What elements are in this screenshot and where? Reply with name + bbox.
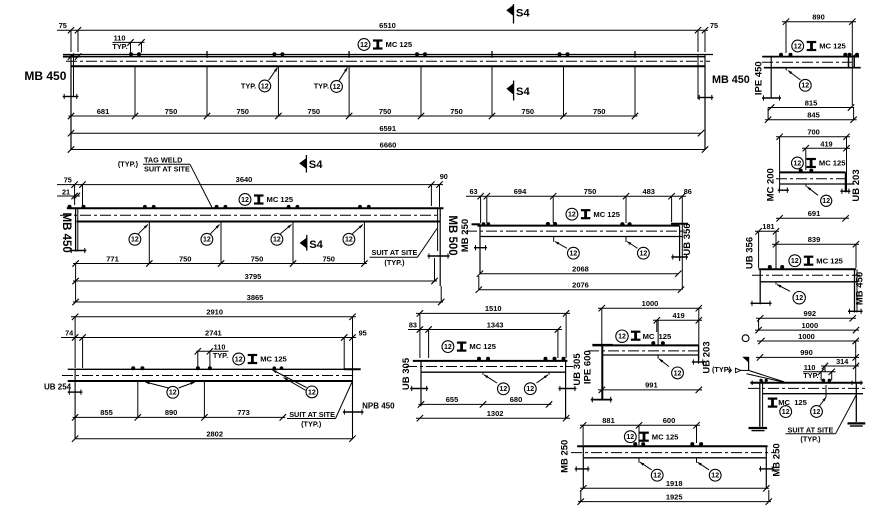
svg-text:S4: S4 bbox=[309, 159, 323, 171]
d10 centerline bbox=[748, 387, 866, 389]
svg-text:MB 250: MB 250 bbox=[560, 440, 571, 473]
svg-text:IPE 600: IPE 600 bbox=[583, 350, 594, 384]
d3 left bolts bbox=[68, 205, 72, 209]
svg-text:MB 450: MB 450 bbox=[24, 69, 66, 83]
svg-text:12: 12 bbox=[308, 389, 316, 396]
d8 dim 1510 bbox=[416, 312, 570, 314]
d1 left flange mark bbox=[63, 96, 79, 98]
svg-text:1343: 1343 bbox=[487, 320, 504, 329]
svg-text:600: 600 bbox=[663, 416, 676, 425]
d10 right post bbox=[855, 383, 857, 422]
d3 section marker S4 mid bbox=[300, 238, 307, 249]
d9 dim 991 bbox=[598, 389, 702, 391]
d1 right end plate bbox=[697, 55, 699, 100]
d11 dim 1918 bbox=[580, 487, 769, 489]
d6 bolts bbox=[768, 265, 772, 269]
d7 dim 2910 bbox=[71, 316, 356, 318]
svg-text:1000: 1000 bbox=[798, 332, 815, 341]
d5 beam bottom line bbox=[780, 183, 854, 185]
d5 dim 419 bbox=[802, 147, 850, 149]
d8 stiffeners and balloons bbox=[482, 372, 484, 375]
svg-text:419: 419 bbox=[820, 140, 832, 149]
d7 dim 2802 bbox=[75, 438, 352, 440]
d2 dim 845 bbox=[765, 119, 857, 121]
d1 centerline bbox=[66, 60, 710, 62]
d3 callout MC 125 bbox=[239, 194, 251, 206]
d8 bolts bbox=[477, 357, 481, 361]
d9 dim 1000 bbox=[598, 307, 702, 309]
d1 beam top flange thick bbox=[71, 65, 705, 67]
svg-text:750: 750 bbox=[251, 254, 264, 263]
d2 callout MC 125 bbox=[792, 40, 804, 52]
svg-text:TYP.: TYP. bbox=[213, 351, 228, 360]
d3 left flange mark bbox=[70, 250, 87, 252]
svg-text:2068: 2068 bbox=[572, 265, 589, 274]
d8 right flange mark bbox=[558, 388, 576, 390]
d8 beam bottom line bbox=[421, 371, 566, 373]
d10 dim 314 bbox=[821, 365, 859, 367]
svg-text:12: 12 bbox=[653, 473, 661, 480]
svg-text:UB 305: UB 305 bbox=[572, 353, 583, 386]
svg-text:MC 125: MC 125 bbox=[267, 195, 294, 204]
svg-text:63: 63 bbox=[469, 187, 477, 196]
d3 section marker S4 top bbox=[299, 158, 306, 169]
svg-text:3640: 3640 bbox=[236, 175, 253, 184]
d5 dim 691 bbox=[776, 217, 849, 219]
svg-text:MC 125: MC 125 bbox=[469, 342, 496, 351]
d7 beam bottom flange thick bbox=[68, 380, 353, 382]
d4 dim 2076 bbox=[479, 289, 681, 291]
d6 dim 181 bbox=[755, 230, 779, 232]
d8 left end plate bbox=[420, 361, 422, 406]
d8 left flange mark bbox=[410, 388, 428, 390]
svg-text:TYP.: TYP. bbox=[112, 42, 127, 51]
svg-text:75: 75 bbox=[710, 21, 718, 30]
d3 bolt pairs bbox=[143, 205, 147, 209]
svg-text:(TYP.): (TYP.) bbox=[384, 258, 405, 267]
svg-text:1302: 1302 bbox=[487, 409, 504, 418]
d7 balloon left with two leaders bbox=[145, 382, 168, 388]
d5 beam top flange thick bbox=[780, 171, 846, 173]
svg-text:839: 839 bbox=[808, 235, 821, 244]
d11 centerline bbox=[571, 452, 773, 454]
d8 dims 83 1343 bbox=[408, 329, 562, 331]
d4 right end plate bbox=[679, 226, 681, 261]
d9 left column IPE600 bbox=[601, 345, 603, 400]
svg-text:TYP.: TYP. bbox=[314, 81, 329, 90]
d5 centerline bbox=[776, 178, 849, 180]
d6 centerline bbox=[752, 274, 860, 276]
d1 stiffener extension lines bbox=[134, 66, 136, 116]
d2 dim 890 bbox=[782, 21, 856, 23]
svg-text:2910: 2910 bbox=[206, 308, 223, 317]
svg-text:IPE 450: IPE 450 bbox=[753, 61, 764, 95]
d1 channel callout MC 125 bbox=[358, 39, 370, 51]
svg-text:181: 181 bbox=[762, 222, 774, 231]
d7 left end plate bbox=[74, 369, 76, 438]
svg-text:890: 890 bbox=[165, 408, 178, 417]
d9 right flange mark bbox=[692, 361, 704, 363]
d7 segment dims 855 890 773 bbox=[73, 416, 286, 418]
d11 beam bottom line bbox=[584, 457, 766, 459]
d9 beam top flange thick bbox=[592, 344, 698, 346]
svg-text:12: 12 bbox=[345, 237, 353, 244]
svg-text:750: 750 bbox=[593, 107, 606, 116]
d4 dim 2068 bbox=[480, 273, 678, 275]
svg-text:12: 12 bbox=[791, 258, 799, 265]
svg-text:125: 125 bbox=[794, 398, 807, 407]
svg-text:12: 12 bbox=[782, 409, 790, 416]
svg-text:750: 750 bbox=[584, 187, 597, 196]
d11 stiffeners and balloons bbox=[638, 458, 640, 463]
svg-text:750: 750 bbox=[322, 254, 335, 263]
d10 beam bottom line bbox=[762, 393, 863, 395]
d7 centerline bbox=[62, 375, 356, 377]
svg-text:12: 12 bbox=[444, 344, 452, 351]
d10 callout MC 125 below bbox=[768, 398, 778, 400]
svg-text:419: 419 bbox=[673, 311, 685, 320]
d5 left flange mark bbox=[778, 189, 789, 191]
d4 centerline bbox=[466, 230, 685, 232]
d3 top dim 75 3640 90 bbox=[57, 184, 443, 186]
svg-text:2076: 2076 bbox=[572, 281, 589, 290]
d4 callout MC 125 bbox=[566, 208, 578, 220]
svg-text:12: 12 bbox=[273, 237, 281, 244]
d9 beam bottom line bbox=[602, 354, 699, 356]
d8 right end plate bbox=[565, 361, 567, 418]
svg-text:12: 12 bbox=[794, 43, 802, 50]
svg-text:2741: 2741 bbox=[205, 328, 222, 337]
svg-text:MC 125: MC 125 bbox=[819, 159, 846, 168]
weld circle symbol bbox=[742, 335, 749, 342]
svg-text:SUIT AT SITE: SUIT AT SITE bbox=[788, 425, 834, 434]
d6 dim 992 bbox=[756, 317, 856, 319]
d8 beam top flange thick bbox=[413, 360, 568, 362]
svg-text:773: 773 bbox=[237, 408, 250, 417]
svg-text:750: 750 bbox=[179, 254, 192, 263]
svg-text:MC 125: MC 125 bbox=[816, 256, 843, 265]
svg-text:655: 655 bbox=[446, 395, 459, 404]
svg-text:MB 450: MB 450 bbox=[60, 213, 72, 253]
d4 left flange mark bbox=[474, 247, 487, 249]
d10 dim 990 bbox=[756, 356, 859, 358]
d9 bolts bbox=[651, 341, 655, 345]
d10 dim 1000 bbox=[757, 340, 859, 342]
svg-text:750: 750 bbox=[379, 107, 392, 116]
svg-text:750: 750 bbox=[308, 107, 321, 116]
d9 dim 419 bbox=[653, 319, 702, 321]
d1 left end cap bbox=[63, 56, 79, 58]
svg-text:TYP.: TYP. bbox=[241, 82, 256, 91]
d6 callout MC 125 bbox=[789, 255, 801, 267]
d9 callout MC 125 bbox=[616, 330, 628, 342]
svg-text:»: » bbox=[728, 365, 733, 375]
svg-text:(TYP.): (TYP.) bbox=[800, 435, 821, 444]
d3 stiffeners bbox=[148, 222, 150, 264]
svg-text:3865: 3865 bbox=[247, 293, 264, 302]
svg-text:MB 500: MB 500 bbox=[446, 215, 458, 255]
svg-text:815: 815 bbox=[805, 98, 818, 107]
d4 left support flange bbox=[472, 223, 481, 225]
d1 section marker S4 mid bbox=[506, 83, 513, 95]
d6 beam top flange thick bbox=[759, 268, 856, 270]
svg-text:MB 250: MB 250 bbox=[460, 219, 471, 252]
svg-text:MB 450: MB 450 bbox=[854, 272, 865, 305]
svg-text:12: 12 bbox=[674, 370, 682, 377]
d3 right flange mark bbox=[428, 255, 450, 257]
svg-text:1000: 1000 bbox=[642, 299, 659, 308]
svg-text:12: 12 bbox=[618, 334, 626, 341]
d6 dim 1000 bbox=[755, 329, 859, 331]
svg-text:845: 845 bbox=[807, 111, 820, 120]
d5 stiffener and balloon bbox=[805, 184, 807, 187]
d6 left end plate bbox=[759, 269, 761, 304]
svg-text:12: 12 bbox=[626, 434, 634, 441]
d3 dim 3865 bbox=[73, 301, 443, 303]
svg-text:(TYP.): (TYP.) bbox=[301, 420, 322, 429]
d10 left post bbox=[759, 383, 761, 427]
d4 right flange mark bbox=[671, 256, 688, 258]
d10 stiffener bbox=[825, 385, 827, 397]
svg-text:750: 750 bbox=[522, 107, 535, 116]
svg-text:95: 95 bbox=[359, 328, 367, 337]
svg-text:S4: S4 bbox=[516, 8, 530, 20]
svg-text:83: 83 bbox=[409, 320, 417, 329]
d7 dims 74 2741 95 bbox=[61, 337, 356, 339]
d8 dim 1302 bbox=[416, 417, 570, 419]
svg-text:MC: MC bbox=[643, 332, 655, 341]
svg-text:750: 750 bbox=[165, 107, 178, 116]
d9 stiffener and balloon bbox=[657, 320, 659, 345]
d4 left end plate bbox=[479, 226, 481, 274]
d5 callout MC 125 bbox=[792, 157, 804, 169]
svg-text:12: 12 bbox=[795, 295, 803, 302]
svg-text:UB 305: UB 305 bbox=[401, 357, 412, 390]
svg-text:1510: 1510 bbox=[485, 304, 502, 313]
d7 bolts bbox=[131, 366, 135, 370]
d1 section marker S4 top bbox=[506, 5, 513, 16]
svg-text:12: 12 bbox=[822, 198, 830, 205]
svg-text:NPB 450: NPB 450 bbox=[362, 402, 395, 411]
d4 right support flange bbox=[671, 223, 688, 225]
d3 left end plates bbox=[75, 208, 77, 252]
svg-text:21: 21 bbox=[62, 187, 70, 196]
svg-text:UB 356: UB 356 bbox=[682, 223, 693, 255]
d7 right top flange bbox=[344, 368, 361, 370]
svg-text:S4: S4 bbox=[516, 86, 530, 98]
svg-text:3795: 3795 bbox=[245, 272, 262, 281]
d2 stiffener and balloon 12 bbox=[785, 68, 787, 71]
d2 dim 815 bbox=[768, 107, 854, 109]
d3 centerline bbox=[60, 214, 441, 216]
d4 bolts bbox=[546, 222, 550, 226]
d3 dim 3795 bbox=[73, 280, 437, 282]
d6 beam bottom line bbox=[760, 281, 858, 283]
d6 stiffener and balloon bbox=[775, 244, 777, 269]
d7 left flange mark bbox=[68, 391, 83, 393]
svg-text:MC 125: MC 125 bbox=[593, 210, 620, 219]
svg-text:SUIT AT SITE: SUIT AT SITE bbox=[144, 164, 190, 173]
svg-text:750: 750 bbox=[450, 107, 463, 116]
svg-text:483: 483 bbox=[642, 187, 655, 196]
d1 top flange line bbox=[63, 54, 713, 56]
svg-text:12: 12 bbox=[169, 390, 177, 397]
d7 right flange mark bbox=[343, 411, 364, 413]
svg-text:12: 12 bbox=[131, 237, 139, 244]
d2 beam bottom line bbox=[764, 67, 861, 69]
svg-text:MC 125: MC 125 bbox=[260, 355, 287, 364]
svg-text:890: 890 bbox=[812, 13, 825, 22]
svg-text:12: 12 bbox=[333, 84, 341, 91]
svg-text:881: 881 bbox=[602, 416, 615, 425]
svg-text:12: 12 bbox=[360, 42, 368, 49]
svg-text:75: 75 bbox=[64, 175, 72, 184]
svg-text:2802: 2802 bbox=[206, 430, 223, 439]
d11 left end plate bbox=[582, 446, 584, 488]
d10 bolts bbox=[822, 379, 826, 383]
d2 beam top flange bbox=[762, 56, 859, 58]
svg-text:750: 750 bbox=[236, 107, 249, 116]
d7 callout MC 125 bbox=[233, 353, 245, 365]
d4 beam top flange thick bbox=[477, 225, 679, 227]
d5 right end plate bbox=[844, 172, 846, 192]
svg-text:12: 12 bbox=[261, 83, 269, 90]
d4 beam bottom line bbox=[480, 236, 682, 238]
svg-text:990: 990 bbox=[800, 348, 813, 357]
svg-text:771: 771 bbox=[106, 254, 119, 263]
d2 right end plates bbox=[848, 55, 850, 69]
d1 top dimension 75 6510 75 bbox=[57, 29, 708, 31]
d11 beam top flange thick bbox=[577, 445, 768, 447]
svg-text:SUIT AT SITE: SUIT AT SITE bbox=[289, 410, 335, 419]
d6 left flange mark bbox=[751, 302, 772, 304]
d8 segment dims 655 680 bbox=[419, 403, 552, 405]
svg-text:MB 450: MB 450 bbox=[712, 74, 750, 86]
svg-text:1918: 1918 bbox=[666, 479, 683, 488]
d3 beam bottom flange thick bbox=[77, 221, 440, 223]
d7 balloon right with two leaders bbox=[273, 370, 307, 388]
d1 right flange mark bbox=[698, 97, 714, 99]
svg-text:S4: S4 bbox=[309, 239, 323, 251]
svg-text:90: 90 bbox=[440, 172, 448, 181]
d9 centerline bbox=[588, 350, 701, 352]
d1 dimension 6660 bbox=[71, 149, 705, 151]
svg-text:6591: 6591 bbox=[379, 124, 396, 133]
d7 stiffeners bbox=[137, 381, 139, 417]
d6 dim 839 bbox=[772, 243, 859, 245]
svg-text:694: 694 bbox=[514, 187, 527, 196]
svg-text:12: 12 bbox=[813, 409, 821, 416]
d7 right end bbox=[352, 369, 354, 436]
d2 bolts bbox=[779, 53, 783, 57]
svg-text:12: 12 bbox=[241, 197, 249, 204]
svg-text:12: 12 bbox=[711, 473, 719, 480]
svg-text:12: 12 bbox=[526, 386, 534, 393]
d5 dim 700 bbox=[776, 136, 850, 138]
d5 bolts bbox=[799, 169, 803, 173]
d1 bolt pairs bbox=[129, 52, 133, 56]
svg-text:MB 250: MB 250 bbox=[771, 443, 782, 476]
d4 weld bolts right bbox=[620, 222, 624, 226]
svg-text:700: 700 bbox=[807, 128, 820, 137]
svg-text:125: 125 bbox=[659, 332, 672, 341]
svg-text:1000: 1000 bbox=[801, 321, 818, 330]
d8 callout MC 125 bbox=[442, 341, 454, 353]
svg-text:12: 12 bbox=[568, 212, 576, 219]
svg-text:MC 125: MC 125 bbox=[652, 432, 679, 441]
d10 balloons 12 bbox=[780, 406, 792, 418]
svg-text:691: 691 bbox=[808, 209, 821, 218]
svg-text:75: 75 bbox=[59, 21, 67, 30]
svg-text:MC 200: MC 200 bbox=[765, 168, 776, 201]
svg-text:6660: 6660 bbox=[380, 140, 397, 149]
svg-text:UB 254: UB 254 bbox=[44, 382, 72, 391]
svg-text:MC 125: MC 125 bbox=[819, 42, 846, 51]
d11 bolts bbox=[633, 442, 637, 446]
d11 dims 881 600 bbox=[580, 424, 700, 426]
d1 dimension 6591 bbox=[71, 132, 701, 134]
d10 beam top flange bbox=[750, 382, 862, 384]
svg-text:12: 12 bbox=[203, 237, 211, 244]
d3 balloons 12 bbox=[138, 225, 147, 234]
d3 dim 21 bbox=[57, 195, 80, 197]
d3 right end plates bbox=[437, 208, 439, 251]
d11 dim 1925 bbox=[578, 501, 771, 503]
svg-text:1925: 1925 bbox=[666, 492, 683, 501]
svg-text:TYP.: TYP. bbox=[803, 371, 818, 380]
d1 segment dimensions 681 750x7 bbox=[69, 115, 638, 117]
svg-text:SUIT AT SITE: SUIT AT SITE bbox=[372, 248, 418, 257]
svg-text:12: 12 bbox=[235, 356, 243, 363]
svg-text:6510: 6510 bbox=[379, 21, 396, 30]
svg-text:TAG WELD: TAG WELD bbox=[144, 155, 182, 164]
svg-text:12: 12 bbox=[570, 251, 578, 258]
d7 beam top line bbox=[68, 368, 353, 370]
d1 weld ticks on top flange bbox=[206, 51, 208, 58]
d6 right end plates bbox=[854, 269, 856, 312]
svg-text:681: 681 bbox=[97, 107, 110, 116]
d4 top dims 63 694 750 483 86 bbox=[466, 195, 686, 197]
svg-text:12: 12 bbox=[500, 386, 508, 393]
svg-text:992: 992 bbox=[804, 309, 817, 318]
d4 stiffeners and balloons bbox=[553, 237, 555, 243]
d2 centerline bbox=[762, 61, 852, 63]
svg-text:991: 991 bbox=[645, 381, 658, 390]
d6 right flange mark bbox=[848, 310, 863, 312]
svg-text:UB 203: UB 203 bbox=[702, 341, 713, 373]
d8 centerline bbox=[406, 366, 573, 368]
d11 right end plate bbox=[765, 446, 767, 488]
d1 channel bottom line bbox=[71, 56, 705, 58]
svg-text:86: 86 bbox=[684, 187, 692, 196]
d1 left end plate bbox=[70, 55, 72, 150]
svg-text:UB 203: UB 203 bbox=[851, 169, 862, 201]
svg-text:314: 314 bbox=[836, 357, 849, 366]
d9 right end plate bbox=[698, 345, 700, 363]
d11 right flange mark bbox=[759, 468, 774, 470]
svg-text:74: 74 bbox=[65, 328, 74, 337]
d3 beam top flange thick bbox=[67, 207, 444, 209]
svg-text:680: 680 bbox=[510, 395, 523, 404]
svg-text:12: 12 bbox=[640, 251, 648, 258]
d5 right flange mark bbox=[840, 190, 850, 192]
d3 segment dims 771 750 750 750 bbox=[73, 263, 367, 265]
svg-text:12: 12 bbox=[801, 83, 809, 90]
d2 left flange mark bbox=[762, 97, 781, 99]
svg-text:12: 12 bbox=[794, 160, 802, 167]
svg-text:(TYP.): (TYP.) bbox=[118, 160, 139, 169]
d11 callout MC 125 bbox=[624, 431, 636, 443]
